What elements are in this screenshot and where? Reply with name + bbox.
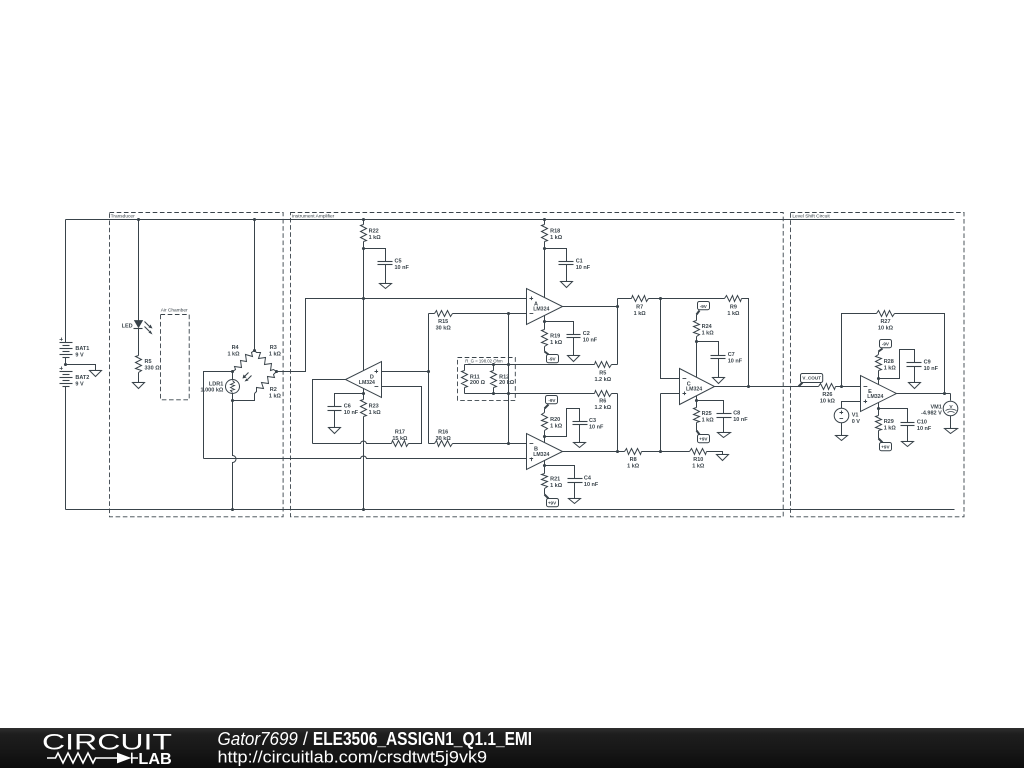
- wire op-amp A V- pin stub: [544, 316, 546, 322]
- junction top rail / R18: [543, 218, 546, 221]
- op-amp E LM324: [861, 376, 897, 412]
- junction bridge bottom node: [231, 399, 234, 402]
- svg-text:R26: R26: [822, 392, 832, 398]
- junction bridge right node: [275, 370, 278, 373]
- svg-text:-9V: -9V: [700, 304, 708, 309]
- svg-text:30 kΩ: 30 kΩ: [436, 326, 452, 332]
- svg-text:-4.982 V: -4.982 V: [921, 410, 942, 416]
- wire R25 to +9V flag: [697, 423, 700, 435]
- wire R_G bottom rail: [465, 393, 509, 395]
- wire op-amp B output: [563, 451, 618, 453]
- svg-text:R22: R22: [369, 228, 379, 234]
- svg-text:R18: R18: [550, 228, 560, 234]
- capacitor C7 10 nF: [711, 352, 743, 365]
- wire top rail to R18: [544, 220, 546, 225]
- wire C4 to ground: [574, 483, 576, 499]
- wire B output node vertical: [617, 394, 619, 452]
- voltmeter VM1 -4.982 V: [921, 401, 958, 416]
- wire LDR to bridge bottom node: [232, 394, 234, 401]
- junction top rail / LED branch: [137, 218, 140, 221]
- junction op-amp B V- node: [543, 435, 546, 438]
- photoresistor LDR1 1.000 kOhm: [201, 373, 252, 394]
- resistor R27 10 kOhm (feedback): [877, 311, 895, 332]
- net flag V_COUT: [799, 374, 823, 387]
- svg-text:1 kΩ: 1 kΩ: [269, 393, 282, 399]
- net flag +9V (op-amp B supply): [547, 499, 559, 507]
- op-amp B LM324: [527, 434, 563, 470]
- svg-text:10 nF: 10 nF: [733, 417, 748, 423]
- svg-text:1 kΩ: 1 kΩ: [550, 340, 563, 346]
- battery BAT2 9 V: [60, 367, 90, 388]
- resistor R23 1 kOhm: [361, 394, 382, 417]
- junction op-amp A V- node: [543, 320, 546, 323]
- svg-text:R7: R7: [636, 304, 643, 310]
- resistor R15 30 kOhm: [429, 311, 453, 332]
- resistor R21 1 kOhm: [542, 466, 563, 490]
- footer bar: [0, 728, 1024, 768]
- junction op-amp D + node: [427, 370, 430, 373]
- svg-text:330 Ω: 330 Ω: [145, 366, 161, 372]
- resistor R6 1.2 kOhm (feedback): [509, 391, 618, 412]
- net flag -9V (op-amp C supply): [698, 302, 710, 310]
- junction top rail / R22: [362, 218, 365, 221]
- wire battery top to +9V rail: [65, 220, 67, 343]
- capacitor C3 10 nF: [573, 418, 605, 431]
- svg-text:10 nF: 10 nF: [589, 425, 604, 431]
- svg-text:-9V: -9V: [548, 398, 556, 403]
- wire R29 to +9V flag: [879, 431, 883, 443]
- wire C + input branch: [661, 394, 680, 452]
- svg-text:10 nF: 10 nF: [924, 366, 939, 372]
- capacitor C6 10 nF: [328, 404, 359, 417]
- wire D + node vertical: [428, 314, 430, 444]
- wire +9V line to op-amp D V+ pin: [363, 299, 365, 371]
- wire op-amp D output loop: [313, 380, 346, 444]
- svg-text:1 kΩ: 1 kΩ: [227, 352, 240, 358]
- voltage source V1 0 V: [834, 408, 860, 425]
- wire top +9V rail: [66, 219, 955, 221]
- wire BAT2 minus to -9V rail: [65, 387, 67, 510]
- svg-text:V_COUT: V_COUT: [802, 376, 821, 381]
- svg-text:1.2 kΩ: 1.2 kΩ: [594, 377, 611, 383]
- svg-text:9 V: 9 V: [75, 382, 84, 388]
- wire top rail to R22: [363, 220, 365, 225]
- svg-text:LM324: LM324: [533, 452, 549, 458]
- resistor R18 1 kOhm: [542, 225, 563, 242]
- ground below C1: [561, 282, 573, 288]
- svg-text:1 kΩ: 1 kΩ: [884, 365, 897, 371]
- junction battery midpoint: [64, 363, 67, 366]
- svg-text:LM324: LM324: [867, 394, 883, 400]
- resistor R3 1 kOhm (bridge arm): [255, 345, 282, 371]
- wire R21 to +9V flag: [545, 489, 549, 499]
- wire bridge left node to op-amp B + (long wire with hop): [204, 372, 527, 459]
- svg-text:LAB: LAB: [138, 751, 171, 768]
- svg-text:LM324: LM324: [686, 387, 702, 393]
- wire R22 node down to op-amp A + line: [363, 249, 365, 299]
- ground below C4: [569, 499, 581, 504]
- junction R7/R9 line / C- branch: [659, 297, 662, 300]
- junction E output / R27 feedback: [943, 392, 946, 395]
- resistor R16 30 kOhm: [429, 430, 453, 447]
- svg-text:1 kΩ: 1 kΩ: [627, 464, 640, 470]
- wire op-amp D + input to node: [382, 371, 429, 373]
- svg-text:1.2 kΩ: 1.2 kΩ: [594, 405, 611, 411]
- svg-text:1 kΩ: 1 kΩ: [692, 464, 705, 470]
- wire C7 to ground: [718, 359, 720, 378]
- svg-text:1 kΩ: 1 kΩ: [550, 483, 563, 489]
- wire battery midpoint to ground: [66, 365, 96, 371]
- ground below R5: [133, 383, 145, 389]
- wire C1 to ground: [566, 265, 568, 282]
- svg-text:10 kΩ: 10 kΩ: [878, 326, 894, 332]
- svg-text:R16: R16: [438, 430, 448, 436]
- wire C5 to ground: [385, 265, 387, 284]
- svg-text:R28: R28: [884, 359, 894, 365]
- net flag -9V (op-amp B supply): [546, 396, 558, 404]
- resistor R2 1 kOhm (bridge arm): [233, 372, 282, 401]
- wire -9V flag to R20: [545, 405, 549, 413]
- junction R_G link / B- line: [507, 442, 510, 445]
- ground below C9: [909, 383, 921, 389]
- ground below C8: [718, 433, 731, 438]
- svg-text:R20: R20: [550, 417, 560, 423]
- capacitor C10 10 nF: [901, 419, 932, 432]
- wire C3 to ground: [579, 425, 581, 443]
- junction op-amp E V+ node: [877, 377, 880, 380]
- svg-text:R3: R3: [270, 345, 277, 351]
- svg-text:C3: C3: [589, 418, 596, 424]
- junction bridge top node: [253, 349, 256, 352]
- resistor R19 1 kOhm: [542, 322, 563, 347]
- wire node to C5: [364, 249, 386, 262]
- resistor R28 1 kOhm: [876, 355, 897, 372]
- svg-text:R29: R29: [884, 419, 894, 425]
- net flag +9V (op-amp C supply): [698, 435, 710, 443]
- wire C8 to ground: [723, 418, 725, 433]
- svg-text:-9V: -9V: [882, 341, 890, 346]
- svg-text:R9: R9: [730, 304, 737, 310]
- svg-text:1 kΩ: 1 kΩ: [634, 311, 647, 317]
- ground below V1: [836, 436, 848, 441]
- resistor R4 1 kOhm (bridge arm): [227, 345, 254, 371]
- resistor R29 1 kOhm: [876, 409, 897, 432]
- svg-text:R4: R4: [232, 345, 240, 351]
- wire node to op-amp A V+ pin: [544, 249, 546, 298]
- svg-text:+9V: +9V: [881, 445, 890, 450]
- wire top rail to LED anode: [138, 220, 140, 321]
- junction op-amp C V+ node: [695, 340, 698, 343]
- resistor R8 1 kOhm: [618, 449, 661, 470]
- wire op-amp D V- pin stub: [363, 389, 365, 394]
- junction op-amp D V- / C6 / R23: [362, 392, 365, 395]
- svg-text:V1: V1: [852, 412, 859, 418]
- svg-text:10 nF: 10 nF: [583, 338, 598, 344]
- junction op-amp B V+ node: [543, 464, 546, 467]
- wire op-amp B V+ pin stub: [544, 461, 546, 466]
- svg-text:+9V: +9V: [699, 437, 708, 442]
- wire R22 to node: [363, 242, 365, 249]
- wire op-amp C V- pin stub: [696, 396, 698, 401]
- junction op-amp B output node: [616, 450, 619, 453]
- wire R5 to ground: [138, 373, 140, 383]
- wire R_G vertical link (A- to B-): [508, 314, 510, 444]
- svg-text:C10: C10: [917, 419, 927, 425]
- wire BAT1 minus to midpoint: [65, 358, 67, 365]
- capacitor C2 10 nF: [567, 331, 598, 344]
- wire op-amp C output: [715, 386, 819, 388]
- capacitor C8 10 nF: [717, 411, 749, 424]
- junction bridge branch / -9V rail: [231, 508, 234, 511]
- svg-text:10 nF: 10 nF: [576, 265, 591, 271]
- resistor R26 10 kOhm: [819, 384, 836, 405]
- wire -9V flag to R28: [879, 349, 883, 355]
- resistor R24 1 kOhm: [694, 321, 715, 337]
- svg-text:C7: C7: [728, 352, 735, 358]
- svg-text:R24: R24: [702, 324, 713, 330]
- wire bridge bottom node to -9V rail (hops over long wire): [233, 401, 236, 510]
- svg-text:+9V: +9V: [548, 500, 557, 505]
- svg-text:10 nF: 10 nF: [728, 359, 743, 365]
- wire R19 to -9V flag: [545, 347, 549, 355]
- wire E V+ node to C9: [879, 350, 915, 379]
- resistor R9 1 kOhm (feedback): [661, 296, 749, 387]
- svg-text:1 kΩ: 1 kΩ: [369, 410, 382, 416]
- wire bridge right node to op-amp A +: [277, 299, 527, 372]
- svg-text:R21: R21: [550, 477, 560, 483]
- svg-text:BAT2: BAT2: [75, 375, 89, 381]
- junction op-amp E - node: [840, 385, 843, 388]
- wire B V- node to C3: [545, 409, 580, 437]
- wire B V+ node to C4: [545, 466, 575, 479]
- svg-text:R17: R17: [395, 430, 405, 436]
- svg-text:C6: C6: [344, 404, 351, 410]
- wire op-amp E + input to V1: [842, 402, 861, 409]
- svg-text:1.000 kΩ: 1.000 kΩ: [201, 387, 224, 393]
- dashed annotation box Air Chamber: [161, 307, 190, 400]
- op-amp A LM324: [527, 289, 563, 325]
- svg-text:9 V: 9 V: [75, 352, 84, 358]
- wire R_G top rail: [465, 364, 509, 366]
- svg-text:C5: C5: [395, 258, 402, 264]
- svg-text:1 kΩ: 1 kΩ: [269, 352, 282, 358]
- junction R22 / C5 branch: [362, 247, 365, 250]
- resistor R7 1 kOhm: [618, 296, 661, 317]
- resistor R11 200 Ohm: [462, 365, 486, 394]
- svg-text:R_G = 198.02 Ohm: R_G = 198.02 Ohm: [465, 359, 503, 364]
- ground below C7: [713, 378, 725, 384]
- svg-text:1 kΩ: 1 kΩ: [550, 423, 563, 429]
- junction R12 bottom / R_G rail: [492, 392, 495, 395]
- wire node to C6: [335, 394, 364, 407]
- svg-text:R19: R19: [550, 333, 560, 339]
- svg-text:C1: C1: [576, 258, 583, 264]
- ground below C3: [574, 443, 586, 448]
- CircuitLab logo resistor-diode glyph: [47, 753, 117, 763]
- svg-text:1 kΩ: 1 kΩ: [727, 311, 740, 317]
- wire op-amp A output: [563, 306, 618, 308]
- wire A output node vertical: [617, 299, 619, 365]
- dashed region box Instrument Amplifier: [291, 213, 784, 517]
- wire C9 to ground: [914, 367, 916, 383]
- diode LED (with emission arrows): [122, 321, 153, 335]
- ground below C5: [380, 284, 392, 289]
- svg-text:R15: R15: [438, 319, 448, 325]
- wire A V- node to C2: [545, 322, 574, 335]
- resistor R20 1 kOhm: [542, 413, 563, 431]
- ground below C6: [329, 428, 341, 434]
- dashed annotation box R_G = 198.02 Ohm: [458, 358, 516, 401]
- ground at battery midpoint: [90, 371, 102, 377]
- resistor R25 1 kOhm: [694, 401, 715, 424]
- resistor R5 330 Ohm: [136, 356, 161, 373]
- svg-text:R10: R10: [693, 457, 703, 463]
- svg-text:R6: R6: [599, 399, 606, 405]
- resistor R22 1 kOhm: [361, 225, 382, 242]
- wire R17 to op-amp D - input: [382, 387, 422, 444]
- wire E V- node to C10: [879, 409, 908, 423]
- wire C - input branch: [661, 299, 680, 379]
- wire D output row to R17 (hop over R23 line): [313, 441, 392, 443]
- svg-text:R5: R5: [145, 359, 152, 365]
- wire E - node up to R27 line: [842, 314, 877, 387]
- resistor R10 1 kOhm: [661, 449, 723, 470]
- svg-text:R27: R27: [880, 319, 890, 325]
- svg-text:LM324: LM324: [533, 307, 549, 313]
- svg-text:R25: R25: [702, 411, 712, 417]
- wire E V+ node stub to op-amp: [878, 379, 880, 385]
- wire C2 to ground: [573, 338, 575, 356]
- wire R28 to op-amp E V+ node: [878, 371, 880, 379]
- ground at R10: [717, 455, 729, 461]
- wire op-amp E output: [897, 393, 951, 395]
- junction op-amp E V- node: [877, 407, 880, 410]
- dashed region box Transducer: [110, 213, 284, 517]
- ground below VM1: [945, 429, 958, 434]
- wire R23 down to -9V rail (crosses two wires): [363, 417, 365, 510]
- ground below C2: [568, 356, 580, 362]
- resistor R17 15 kOhm: [392, 430, 409, 447]
- junction top rail / bridge branch: [253, 218, 256, 221]
- svg-text:1 kΩ: 1 kΩ: [884, 425, 897, 431]
- wire top rail to bridge top node: [254, 220, 256, 351]
- svg-text:C8: C8: [733, 411, 740, 417]
- net flag -9V (op-amp A supply): [547, 355, 559, 363]
- op-amp C LM324: [680, 369, 715, 405]
- svg-text:C2: C2: [583, 331, 590, 337]
- svg-text:LM324: LM324: [359, 380, 375, 386]
- wire R18 to node: [544, 242, 546, 249]
- junction R8/R10 line / C+ branch: [659, 450, 662, 453]
- svg-text:30 kΩ: 30 kΩ: [436, 436, 452, 442]
- svg-text:Instrument Amplifier: Instrument Amplifier: [292, 214, 335, 220]
- junction R18 / C1 branch: [543, 247, 546, 250]
- junction R_G link / R_G top rail: [507, 363, 510, 366]
- svg-text:10 nF: 10 nF: [584, 482, 599, 488]
- junction R_G link / A- line: [507, 312, 510, 315]
- resistor R5 1.2 kOhm (feedback): [509, 362, 618, 383]
- svg-text:10 nF: 10 nF: [344, 410, 359, 416]
- svg-text:LED: LED: [122, 323, 133, 329]
- junction op-amp A output node: [616, 305, 619, 308]
- wire R27 to op-amp E output: [895, 314, 945, 394]
- junction op-amp C V- node: [695, 399, 698, 402]
- junction R12 top / R_G rail: [492, 363, 495, 366]
- net flag -9V (op-amp E supply): [880, 340, 892, 348]
- svg-text:Level Shift Circuit: Level Shift Circuit: [792, 214, 830, 220]
- svg-text:-9V: -9V: [548, 356, 556, 361]
- capacitor C4 10 nF: [568, 476, 599, 489]
- wire node to C1: [545, 249, 567, 262]
- svg-text:Gator7699 / ELE3506_ASSIGN1_Q1: Gator7699 / ELE3506_ASSIGN1_Q1.1_EMI: [218, 729, 533, 749]
- svg-text:1 kΩ: 1 kΩ: [550, 235, 563, 241]
- wire R24 to op-amp C V+ node: [696, 337, 698, 342]
- junction bridge left node: [231, 370, 234, 373]
- wire C10 to ground: [907, 426, 909, 442]
- svg-text:R23: R23: [369, 403, 379, 409]
- net flag +9V (op-amp E supply): [880, 443, 892, 451]
- svg-text:1 kΩ: 1 kΩ: [702, 331, 715, 337]
- wire -9V flag to R24: [697, 311, 700, 321]
- capacitor C1 10 nF: [559, 258, 591, 271]
- wire bridge left node to LDR: [232, 372, 234, 380]
- resistor R12 20 kOhm: [491, 365, 515, 394]
- wire LED cathode to R5: [138, 329, 140, 356]
- junction R_G link / R_G bottom rail: [507, 392, 510, 395]
- wire C V- node to C8: [697, 401, 724, 414]
- wire V1 to ground: [841, 423, 843, 436]
- wire C V+ node stub to op-amp: [696, 342, 698, 378]
- svg-text:1 kΩ: 1 kΩ: [369, 235, 382, 241]
- svg-text:10 nF: 10 nF: [395, 265, 410, 271]
- svg-text:http://circuitlab.com/crsdtwt5: http://circuitlab.com/crsdtwt5j9vk9: [218, 748, 488, 767]
- svg-text:0 V: 0 V: [852, 419, 861, 425]
- svg-text:20 kΩ: 20 kΩ: [499, 380, 515, 386]
- wire op-amp E V- pin stub: [878, 403, 880, 409]
- svg-text:Transducer: Transducer: [111, 214, 135, 220]
- svg-text:10 kΩ: 10 kΩ: [820, 398, 836, 404]
- svg-text:R8: R8: [630, 457, 637, 463]
- svg-text:10 nF: 10 nF: [917, 426, 932, 432]
- svg-text:1 kΩ: 1 kΩ: [702, 418, 715, 424]
- junction op-amp C output node: [747, 385, 750, 388]
- svg-text:C4: C4: [584, 476, 592, 482]
- dashed region box Level Shift Circuit: [791, 213, 965, 517]
- junction R22 line / op-amp A + line: [362, 297, 365, 300]
- wire R26 to op-amp E - input: [836, 386, 861, 388]
- wire E output to voltmeter: [950, 394, 952, 401]
- wire C V+ node to C7: [697, 342, 719, 356]
- op-amp D LM324: [346, 362, 382, 398]
- svg-text:15 kΩ: 15 kΩ: [392, 436, 408, 442]
- battery BAT1 9 V: [60, 338, 90, 359]
- wire VM1 to ground: [950, 416, 952, 429]
- wire R15 to op-amp A - input: [453, 313, 527, 315]
- svg-text:C9: C9: [924, 359, 931, 365]
- wire R20 to op-amp B V- node: [544, 431, 546, 437]
- capacitor C9 10 nF: [907, 359, 939, 372]
- capacitor C5 10 nF: [378, 258, 410, 271]
- wire bottom -9V rail: [66, 509, 955, 511]
- wire B V- node stub to op-amp: [544, 437, 546, 443]
- svg-text:BAT1: BAT1: [75, 346, 89, 352]
- svg-text:R5: R5: [599, 370, 606, 376]
- svg-text:200 Ω: 200 Ω: [470, 380, 486, 386]
- ground below C10: [902, 442, 914, 447]
- svg-text:R2: R2: [270, 387, 277, 393]
- junction R23 line / -9V rail: [362, 508, 365, 511]
- wire R16 to op-amp B - input: [453, 443, 527, 445]
